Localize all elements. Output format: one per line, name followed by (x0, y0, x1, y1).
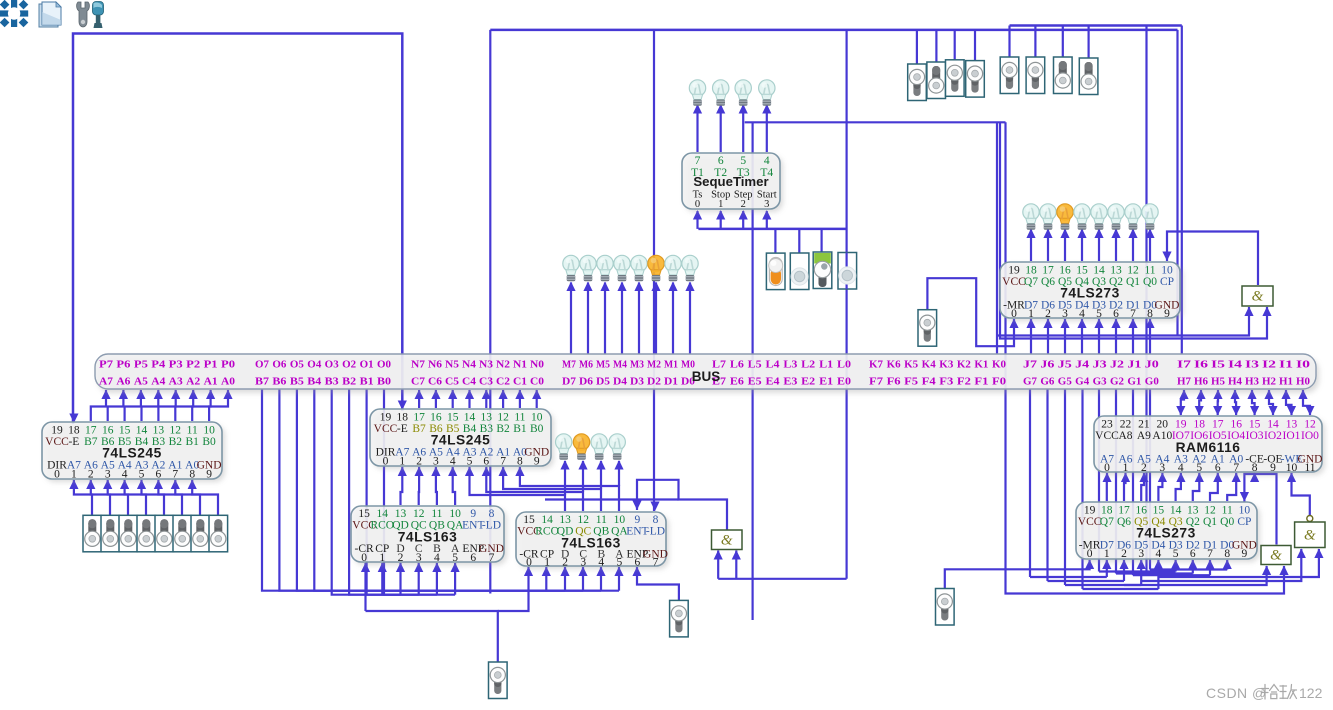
svg-text:K4: K4 (922, 359, 937, 371)
wire switch riser g1 (935, 30, 937, 62)
wire 273A D in (1081, 319, 1083, 354)
svg-text:SequeTimer: SequeTimer (693, 174, 768, 189)
wire V3 to bus I7 (1181, 26, 1183, 355)
svg-text:2: 2 (1141, 462, 1147, 474)
svg-text:19: 19 (51, 425, 63, 437)
svg-text:&: & (721, 532, 733, 548)
svg-text:13: 13 (481, 412, 493, 424)
wire busB to 163 (297, 389, 601, 591)
svg-text:N4: N4 (462, 359, 477, 371)
svg-text:13: 13 (1187, 505, 1199, 517)
svg-text:L2: L2 (801, 359, 815, 371)
IC U6 74LS273 (1003, 265, 1183, 321)
wire 273A Q bulb (1115, 230, 1117, 262)
bulb Q (1142, 204, 1158, 230)
wire 273A D in (1047, 319, 1049, 354)
svg-text:RCO: RCO (370, 520, 394, 532)
wire 273B D riser (1226, 560, 1228, 570)
AND gate G1 (1242, 286, 1273, 306)
svg-text:6: 6 (483, 456, 489, 468)
svg-text:4: 4 (122, 469, 128, 481)
wire 245B to busC (435, 390, 437, 408)
wire sw to 245A (108, 480, 128, 515)
svg-text:B1: B1 (360, 376, 374, 388)
svg-text:P4: P4 (151, 359, 166, 371)
svg-text:BUS: BUS (692, 369, 721, 384)
wire 273B Q to RAM (1124, 473, 1126, 501)
wire 273B Q to RAM (1227, 473, 1236, 501)
IC U4 74LS163 (519, 515, 669, 569)
bulb Q (1023, 204, 1039, 230)
svg-text:F2: F2 (957, 376, 971, 388)
svg-text:74LS273: 74LS273 (1060, 286, 1120, 301)
bulb M690 (682, 255, 698, 281)
wire -CE tap (1253, 473, 1255, 474)
svg-text:VCC: VCC (1095, 430, 1119, 442)
wire -LD drop x654 (653, 30, 655, 511)
svg-text:15: 15 (119, 425, 131, 437)
svg-text:5: 5 (139, 469, 145, 481)
svg-text:1: 1 (544, 557, 550, 569)
svg-text:13: 13 (1110, 265, 1122, 277)
svg-text:I7: I7 (1177, 359, 1192, 371)
wire busH RAM IO (1269, 390, 1273, 415)
wire G4 in1 (717, 551, 719, 579)
svg-text:1: 1 (399, 456, 405, 468)
svg-text:A5: A5 (134, 376, 148, 388)
svg-text:N6: N6 (428, 359, 443, 371)
switch g2d (1079, 58, 1098, 95)
node BUS bar (98, 358, 1319, 393)
svg-text:B1: B1 (513, 423, 527, 435)
svg-text:9: 9 (1270, 462, 1276, 474)
wire 163B bulb (564, 461, 566, 495)
svg-text:B2: B2 (342, 376, 356, 388)
wire 273B D riser (1123, 560, 1125, 581)
bulb Q (1040, 204, 1056, 230)
svg-text:0: 0 (54, 469, 60, 481)
switch input S3 (137, 515, 156, 552)
svg-text:-E: -E (68, 436, 79, 448)
wire -MR 273B (945, 560, 1090, 589)
wire long drop x752 (751, 122, 753, 620)
svg-text:7: 7 (489, 552, 495, 564)
svg-text:B7: B7 (84, 436, 98, 448)
svg-text:17: 17 (1212, 419, 1224, 431)
wire 273B D riser (1106, 560, 1108, 577)
bulb counter (573, 434, 589, 460)
wire 163A out (436, 467, 437, 505)
wire 163 D riser (436, 563, 438, 595)
svg-text:17: 17 (85, 425, 97, 437)
switch g2a (1000, 57, 1019, 94)
svg-text:8: 8 (189, 469, 195, 481)
svg-text:12: 12 (1304, 419, 1316, 431)
wire 245B to busC (418, 390, 420, 408)
svg-text:C0: C0 (530, 376, 544, 388)
svg-text:8: 8 (653, 514, 659, 526)
svg-text:O7: O7 (255, 359, 270, 371)
svg-text:8: 8 (517, 456, 523, 468)
svg-text:14: 14 (1267, 419, 1279, 431)
svg-text:H0: H0 (1296, 376, 1310, 388)
switch g1c (946, 60, 965, 97)
wire bus bulb (604, 283, 606, 355)
svg-text:9: 9 (1164, 308, 1170, 320)
wire mesh h (1065, 584, 1141, 586)
svg-text:6: 6 (1215, 462, 1221, 474)
svg-text:G7: G7 (1023, 376, 1038, 388)
bulb M639 (631, 255, 647, 281)
switch input S1 (101, 515, 120, 552)
wire 273A D in (1132, 319, 1134, 354)
wire 273A Q bulb (1047, 230, 1049, 262)
svg-text:15: 15 (1153, 505, 1165, 517)
bulb counter (591, 434, 607, 460)
svg-text:5: 5 (467, 456, 473, 468)
wire V1 long (1145, 26, 1147, 572)
svg-text:O4: O4 (307, 359, 322, 371)
svg-text:F7: F7 (869, 376, 884, 388)
wire 163B bulb (618, 461, 620, 486)
svg-text:74LS163: 74LS163 (398, 530, 458, 545)
wire timer ctl (742, 211, 744, 229)
svg-text:122: 122 (1299, 685, 1323, 701)
wire busG down (1046, 389, 1048, 581)
svg-text:VCC: VCC (374, 423, 398, 435)
svg-text:3: 3 (764, 199, 769, 210)
wire timer out (766, 105, 768, 152)
svg-text:N2: N2 (496, 359, 510, 371)
svg-text:8: 8 (1252, 462, 1258, 474)
svg-text:3: 3 (433, 456, 439, 468)
wire 273B D riser (1157, 560, 1159, 589)
svg-text:15: 15 (447, 412, 459, 424)
wire mesh h (1030, 576, 1107, 578)
svg-text:P3: P3 (169, 359, 184, 371)
svg-text:C5: C5 (445, 376, 459, 388)
svg-text:9: 9 (1242, 548, 1248, 560)
wire 273A Q bulb (1132, 230, 1134, 262)
svg-text:D5: D5 (596, 376, 610, 388)
wire -MR 273A (927, 278, 1014, 346)
wire 245A to busA (125, 390, 141, 421)
wire busG down (1098, 389, 1100, 572)
switch reset (489, 662, 508, 699)
svg-text:1: 1 (71, 469, 77, 481)
svg-text:N0: N0 (530, 359, 544, 371)
wire 273B D riser (1174, 560, 1176, 572)
svg-text:CP: CP (1160, 276, 1174, 288)
wire busB to 163 (349, 389, 419, 595)
svg-text:I5: I5 (1211, 359, 1225, 371)
bulb Q (1108, 204, 1124, 230)
svg-text:0: 0 (1011, 308, 1017, 320)
svg-text:K6: K6 (887, 359, 902, 371)
svg-text:12: 12 (1127, 265, 1139, 277)
wire 163B bulb (582, 461, 584, 492)
svg-text:O5: O5 (290, 359, 304, 371)
wire timer sw drop (798, 229, 800, 253)
svg-text:0: 0 (383, 456, 389, 468)
AND gate G4 (712, 530, 743, 550)
wire timer ctl (696, 211, 698, 229)
svg-text:12: 12 (577, 514, 589, 526)
svg-text:11: 11 (431, 508, 442, 520)
svg-text:RAM6116: RAM6116 (1176, 440, 1241, 455)
wire G2 out CP (1244, 474, 1276, 545)
wire 163 D riser (582, 567, 584, 591)
svg-text:12: 12 (170, 425, 182, 437)
svg-text:4: 4 (1079, 308, 1085, 320)
wire ENP 163B (637, 567, 679, 600)
switch MR (918, 310, 937, 347)
wire G3 out -WE (1292, 473, 1310, 515)
wire busG down (1081, 389, 1083, 589)
wire 273B Q to RAM (1193, 473, 1200, 501)
svg-text:C7: C7 (411, 376, 426, 388)
svg-text:B2: B2 (169, 436, 183, 448)
svg-text:M7: M7 (562, 359, 577, 371)
svg-text:13: 13 (559, 514, 571, 526)
wire G2 in2 (1006, 122, 1285, 593)
svg-text:H5: H5 (1211, 376, 1225, 388)
wire 273B D riser (1192, 560, 1194, 574)
switch g2c (1054, 57, 1073, 94)
svg-text:A6: A6 (116, 376, 131, 388)
wire busB to 163 (314, 389, 619, 591)
wire timer out (742, 105, 744, 152)
wire 163A out (418, 467, 421, 505)
wire V2 (1176, 30, 1178, 336)
wire 245B to busC (502, 390, 504, 408)
svg-text:A2: A2 (186, 376, 200, 388)
wire G4 in2 (735, 551, 737, 579)
svg-text:B0: B0 (530, 423, 544, 435)
svg-text:L0: L0 (837, 359, 851, 371)
svg-text:G1: G1 (1127, 376, 1141, 388)
wire G3 in2 (1158, 549, 1319, 577)
svg-text:19: 19 (380, 412, 392, 424)
switch g2b (1026, 57, 1045, 94)
svg-text:14: 14 (377, 508, 389, 520)
svg-text:C3: C3 (479, 376, 494, 388)
svg-text:F5: F5 (904, 376, 918, 388)
bulb Q (1091, 204, 1107, 230)
switch input S4 (155, 515, 174, 552)
svg-text:L5: L5 (748, 359, 762, 371)
wire 163 D riser (418, 563, 420, 595)
svg-text:CSDN @: CSDN @ (1206, 685, 1267, 701)
wire bus bulb (672, 283, 674, 355)
svg-text:23: 23 (1101, 419, 1113, 431)
svg-text:14: 14 (136, 425, 148, 437)
wire switch riser g2 (1087, 26, 1089, 59)
svg-text:2: 2 (416, 456, 422, 468)
svg-text:N7: N7 (411, 359, 426, 371)
wire 163A out (453, 467, 455, 505)
wire switch riser g1 (974, 30, 976, 61)
svg-text:H3: H3 (1245, 376, 1260, 388)
svg-text:M5: M5 (596, 359, 610, 371)
svg-text:Q1: Q1 (1126, 276, 1140, 288)
wire 273A D in (1030, 319, 1032, 354)
toolbar tools icon (77, 2, 104, 29)
svg-text:B7: B7 (255, 376, 270, 388)
bulb M656 (648, 255, 664, 281)
IC U5 SequeTimer (685, 156, 783, 212)
bulb M622 (614, 255, 630, 281)
svg-text:VCC: VCC (1078, 516, 1102, 528)
svg-text:14: 14 (464, 412, 476, 424)
IC U8 74LS273 (1079, 505, 1260, 562)
svg-text:17: 17 (413, 412, 425, 424)
svg-text:P1: P1 (204, 359, 218, 371)
svg-text:B2: B2 (496, 423, 510, 435)
switch WR (936, 589, 955, 626)
svg-text:L4: L4 (766, 359, 781, 371)
svg-text:H1: H1 (1279, 376, 1293, 388)
svg-text:15: 15 (1249, 419, 1261, 431)
wire 273A Q bulb (1030, 230, 1032, 262)
bulb M588 (580, 255, 596, 281)
svg-text:K1: K1 (974, 359, 988, 371)
wire sw to 245A (74, 480, 92, 515)
wire timer out (720, 105, 722, 152)
svg-text:2: 2 (398, 552, 404, 564)
wire switch riser g2 (1062, 26, 1064, 58)
svg-text:O2: O2 (342, 359, 356, 371)
AND gate G2 (1261, 546, 1291, 565)
svg-text:H6: H6 (1194, 376, 1209, 388)
svg-text:G0: G0 (1145, 376, 1159, 388)
svg-text:B3: B3 (325, 376, 340, 388)
wire 245B to busC (468, 390, 470, 408)
NAND gate G3 (1295, 516, 1325, 548)
switch ENP (670, 600, 689, 637)
svg-text:7: 7 (1207, 548, 1213, 560)
svg-text:7: 7 (1233, 462, 1239, 474)
wire T3 branch (745, 121, 1006, 123)
wire -E rail (73, 34, 402, 425)
svg-text:74LS273: 74LS273 (1136, 526, 1196, 541)
svg-text:9: 9 (470, 508, 476, 520)
bulb M571 (563, 255, 579, 281)
switch input S7 (209, 515, 228, 552)
wire clock drop x490 (489, 30, 491, 594)
svg-text:E4: E4 (766, 376, 781, 388)
svg-text:10: 10 (1239, 505, 1251, 517)
svg-text:2: 2 (562, 557, 568, 569)
svg-text:6: 6 (1190, 548, 1196, 560)
svg-text:J5: J5 (1058, 359, 1072, 371)
wire 273B D riser (1140, 560, 1142, 585)
svg-text:O3: O3 (325, 359, 340, 371)
svg-text:11: 11 (1222, 505, 1233, 517)
svg-text:4: 4 (764, 155, 770, 167)
wire sw to 245A (91, 480, 110, 515)
svg-text:A3: A3 (169, 376, 184, 388)
svg-text:3: 3 (105, 469, 111, 481)
svg-text:P0: P0 (221, 359, 235, 371)
svg-text:E3: E3 (783, 376, 798, 388)
svg-text:&: & (1270, 548, 1282, 564)
svg-text:11: 11 (187, 425, 198, 437)
wire sw to 245A (175, 480, 200, 515)
svg-text:4: 4 (1156, 548, 1162, 560)
svg-text:16: 16 (1135, 505, 1147, 517)
svg-text:VCC: VCC (45, 436, 69, 448)
svg-text:3: 3 (1159, 462, 1165, 474)
svg-text:1: 1 (1104, 548, 1110, 560)
svg-text:E1: E1 (819, 376, 833, 388)
svg-text:G6: G6 (1040, 376, 1055, 388)
svg-text:IO2: IO2 (1264, 430, 1282, 442)
svg-text:F4: F4 (922, 376, 937, 388)
wire switch riser g1 (916, 30, 918, 64)
wire CP 163B (545, 567, 547, 591)
wire timer ctl (766, 211, 768, 229)
wire 273A Q bulb (1098, 230, 1100, 262)
svg-text:C2: C2 (496, 376, 510, 388)
svg-text:1: 1 (379, 552, 385, 564)
wire sw to 245A (125, 480, 146, 515)
svg-text:B6: B6 (272, 376, 287, 388)
svg-text:13: 13 (153, 425, 165, 437)
wire 163 D riser (564, 567, 566, 591)
svg-text:M3: M3 (630, 359, 645, 371)
wire mesh h (1099, 570, 1176, 572)
IC U2 74LS245 (373, 412, 554, 469)
bulb timer (689, 80, 705, 106)
svg-text:5: 5 (452, 552, 458, 564)
wire G1 out to CP (1167, 232, 1258, 286)
svg-text:14: 14 (541, 514, 553, 526)
wire 245A to busA (209, 390, 228, 421)
wire 245A to busA (91, 390, 106, 421)
svg-text:Q6: Q6 (1117, 516, 1131, 528)
wire 273A Q bulb (1064, 230, 1066, 262)
wire 273B Q to RAM (1141, 473, 1144, 501)
switch Step (green pushbutton) (813, 252, 832, 289)
wire ENT/G4 link (637, 480, 727, 531)
svg-text:E6: E6 (730, 376, 745, 388)
svg-text:14: 14 (1170, 505, 1182, 517)
svg-text:P7: P7 (99, 359, 114, 371)
svg-text:19: 19 (1084, 505, 1096, 517)
svg-text:3: 3 (580, 557, 586, 569)
svg-text:J1: J1 (1127, 359, 1141, 371)
svg-text:16: 16 (430, 412, 442, 424)
svg-text:K3: K3 (939, 359, 954, 371)
svg-text:7: 7 (172, 469, 178, 481)
svg-text:7: 7 (695, 155, 701, 167)
svg-text:20: 20 (1157, 419, 1169, 431)
svg-text:1: 1 (1028, 308, 1034, 320)
wire 273B D riser (1209, 560, 1211, 575)
wire sw to 245A (142, 480, 165, 515)
wire G2 in1 (1124, 566, 1267, 585)
svg-text:O1: O1 (360, 359, 374, 371)
svg-text:17: 17 (1042, 265, 1054, 277)
svg-text:P2: P2 (186, 359, 200, 371)
wire drop x846 (845, 30, 847, 579)
svg-text:Q0: Q0 (1143, 276, 1157, 288)
svg-text:18: 18 (68, 425, 80, 437)
wire bus bulb (621, 283, 623, 355)
svg-text:RCO: RCO (535, 526, 559, 538)
svg-text:J6: J6 (1040, 359, 1055, 371)
